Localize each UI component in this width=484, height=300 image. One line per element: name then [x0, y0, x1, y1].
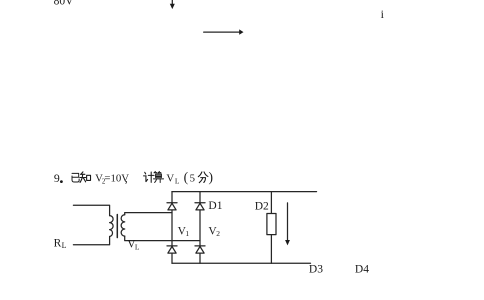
diode bottom-right: [195, 246, 205, 253]
load branch top wire: [270, 192, 272, 214]
hanzi 计: [144, 172, 155, 182]
load current arrow (down): [285, 203, 290, 246]
load resistor: [267, 214, 276, 235]
svg-text:): ): [209, 170, 214, 185]
transformer primary bottom lead: [73, 237, 109, 245]
load branch bottom wire: [270, 235, 272, 264]
right bridge leg: [199, 192, 201, 264]
problem text: 9.: [54, 171, 63, 185]
text VL: [166, 170, 195, 186]
current arrow (right): [204, 29, 244, 34]
svg-text:9: 9: [54, 171, 60, 185]
hanzi 算: [153, 171, 163, 182]
svg-text:2: 2: [216, 229, 220, 238]
diode top-left: [167, 203, 177, 210]
bottom dc rail: [172, 262, 311, 264]
svg-text:D1: D1: [208, 200, 222, 212]
transformer primary top lead: [73, 205, 109, 215]
svg-text:,: ,: [125, 171, 128, 185]
current arrow (down) top: [170, 0, 175, 9]
hanzi 已: [72, 173, 79, 182]
secondary bottom lead to bridge: [125, 236, 200, 241]
svg-text:80V: 80V: [54, 0, 75, 8]
transformer secondary winding: [121, 215, 125, 236]
svg-text:L: L: [175, 177, 180, 186]
svg-text:V: V: [166, 173, 174, 185]
svg-text:1: 1: [185, 229, 189, 238]
hanzi 分: [198, 172, 208, 183]
svg-text:R: R: [54, 237, 62, 249]
svg-text:L: L: [135, 242, 140, 251]
svg-text:5: 5: [190, 173, 195, 185]
text V2=10V,: [95, 171, 129, 185]
svg-text:(: (: [184, 170, 189, 185]
svg-text:D2: D2: [255, 201, 269, 213]
left bridge leg: [171, 192, 173, 264]
transformer primary winding T1: [110, 216, 114, 237]
transformer core: [116, 215, 118, 238]
svg-text:i: i: [381, 7, 385, 21]
svg-text:D3: D3: [309, 263, 323, 275]
label RL: [54, 237, 67, 250]
top dc rail: [172, 191, 317, 193]
label VL (secondary): [127, 239, 140, 252]
label V2: [208, 225, 220, 238]
svg-text:D4: D4: [355, 263, 369, 275]
hanzi 知: [80, 172, 91, 182]
diode D1 (top-right): [195, 203, 205, 210]
label V1: [178, 225, 190, 238]
secondary top lead to bridge: [125, 213, 172, 215]
svg-text:L: L: [62, 241, 67, 250]
diode bottom-left: [167, 246, 177, 253]
